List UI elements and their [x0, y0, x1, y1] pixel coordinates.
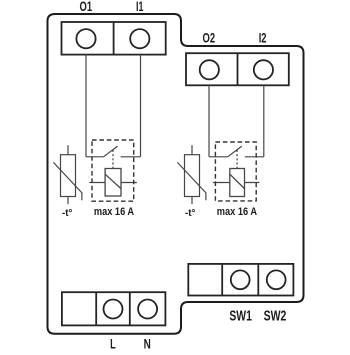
- svg-text:-t°: -t°: [185, 207, 195, 219]
- svg-text:N: N: [144, 336, 151, 350]
- svg-text:SW2: SW2: [264, 307, 287, 324]
- svg-text:I1: I1: [136, 0, 144, 14]
- svg-text:O2: O2: [203, 30, 216, 45]
- svg-text:I2: I2: [259, 30, 267, 45]
- svg-text:L: L: [110, 336, 116, 350]
- svg-text:max 16 A: max 16 A: [94, 206, 134, 218]
- svg-text:SW1: SW1: [229, 307, 252, 324]
- svg-text:O1: O1: [80, 0, 93, 14]
- svg-text:-t°: -t°: [62, 207, 72, 219]
- svg-text:max 16 A: max 16 A: [217, 206, 257, 218]
